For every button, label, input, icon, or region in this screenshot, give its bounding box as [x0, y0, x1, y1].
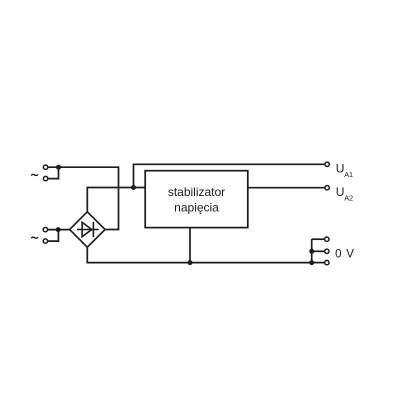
wire: 0V stub middle [312, 250, 325, 252]
junction: AC input 1 [56, 165, 61, 170]
wire: 0V stub upper [312, 238, 325, 240]
svg-text:U: U [336, 185, 345, 199]
terminal: 0V upper [325, 237, 329, 241]
wire: AC input 2 lower terminal link [48, 230, 58, 242]
label: ~ (AC input 1) [31, 174, 38, 175]
junction: 0V bus middle [309, 249, 314, 254]
svg-text:napięcia: napięcia [174, 200, 219, 214]
wire: AC input 1 lower terminal link [48, 167, 58, 178]
wire: stabilizer output to UA2 terminal [248, 187, 325, 189]
terminal: AC input 1 upper [43, 165, 47, 169]
label: ~ (AC input 2) [31, 237, 38, 238]
terminal: AC input 2 lower [43, 239, 47, 243]
wire: stabilizer ground lead [189, 228, 191, 263]
bridge rectifier: diode axis [77, 229, 99, 231]
wire: bridge + output to stabilizer input [87, 188, 145, 212]
junction: 0V bus lower [309, 260, 314, 265]
bridge rectifier: diamond outline [70, 212, 106, 247]
terminal: 0V middle [325, 249, 329, 253]
stabilizer box [145, 171, 248, 228]
wire: 0V stub lower [312, 262, 325, 264]
svg-text:V: V [346, 249, 354, 261]
svg-text:stabilizator: stabilizator [168, 185, 225, 199]
terminal: 0V lower [325, 260, 329, 264]
terminal: UA1 [325, 162, 329, 166]
wire: DC positive node to UA1 terminal [134, 164, 325, 187]
terminal: AC input 1 lower [43, 176, 47, 180]
junction: ground node at stabilizer [188, 260, 193, 265]
wire: AC input 2 to bridge left vertex [48, 229, 70, 231]
junction: AC input 2 [56, 227, 61, 232]
wire: AC input 1 to bridge right vertex [48, 167, 118, 229]
junction: DC positive node [131, 185, 136, 190]
svg-text:U: U [336, 162, 345, 176]
svg-text:A1: A1 [344, 170, 353, 179]
terminal: UA2 [325, 186, 329, 190]
svg-text:A2: A2 [344, 194, 353, 203]
bridge rectifier: diode cathode bar [92, 222, 94, 237]
terminal: AC input 2 upper [43, 227, 47, 231]
svg-text:0: 0 [335, 249, 341, 261]
wire: bridge - output along 0V rail [87, 247, 311, 262]
bridge rectifier: diode triangle [82, 222, 92, 236]
wire: 0V terminal bus [311, 239, 313, 262]
